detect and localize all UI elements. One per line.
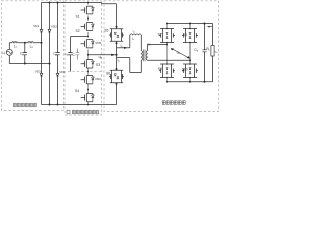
- svg-text:S1: S1: [76, 14, 80, 18]
- output node dots: [166, 23, 206, 83]
- svg-text:X1: X1: [147, 43, 151, 47]
- svg-text:ip: ip: [118, 58, 121, 63]
- wire: AC top wire: [9, 42, 41, 44]
- labels: [2, 14, 218, 93]
- chain node dots: [87, 18, 89, 91]
- svg-text:RL: RL: [206, 47, 210, 52]
- AC source U_i: [6, 49, 12, 55]
- svg-text:S7: S7: [158, 33, 162, 37]
- inductor L_f1: [12, 42, 18, 43]
- caption: HF converter: [162, 101, 185, 105]
- wire: S5 to link node: [116, 42, 118, 58]
- wire: bottom bus: [42, 104, 117, 106]
- svg-text:iLr: iLr: [133, 29, 136, 34]
- dashed divider segment: [68, 71, 104, 73]
- switch S2: [81, 23, 95, 37]
- switch cell 3 (VD5): [81, 40, 95, 55]
- inductor L_r: [129, 35, 131, 48]
- flying cap branch C_d2: [70, 37, 72, 72]
- bidirectional switch S10: [182, 64, 198, 78]
- transformer T1 primary: [141, 51, 142, 61]
- svg-text:VD3: VD3: [35, 69, 41, 73]
- inductor L_f2: [28, 42, 34, 43]
- wire: S6 branch: [116, 58, 118, 70]
- capacitor C_o: [204, 24, 206, 82]
- dashed box: five-level inverter section: [65, 1, 102, 115]
- rail 2: [49, 3, 51, 105]
- svg-text:S3: S3: [96, 63, 100, 67]
- caption: five-level inverter: [67, 110, 99, 114]
- svg-text:Ui: Ui: [2, 51, 5, 56]
- svg-text:uo: uo: [215, 50, 219, 55]
- transformer core: [143, 50, 145, 62]
- switch S1 (MOSFET+diode): [81, 3, 95, 22]
- dashed box: HF transformer converter section: [104, 1, 219, 112]
- rail 1: [41, 3, 43, 105]
- wire: link upper with arrow i_s: [117, 47, 130, 49]
- svg-text:VD5: VD5: [95, 41, 101, 45]
- svg-text:Ls: Ls: [30, 44, 34, 49]
- wire: AC bottom return: [9, 63, 49, 65]
- rail 3: [57, 3, 59, 105]
- wire: source top lead: [8, 43, 10, 50]
- diode VD4: [56, 73, 59, 76]
- svg-text:S2: S2: [76, 29, 80, 33]
- capacitor C_f branch: [24, 43, 26, 64]
- wire: node A to flying caps: [71, 36, 89, 38]
- diode VD1: [40, 29, 43, 32]
- wire: secondary top: [147, 45, 167, 51]
- capacitor C_r: [76, 49, 80, 60]
- transformer T1 secondary: [146, 51, 147, 61]
- bidirectional switch S9: [159, 64, 175, 78]
- svg-text:up: up: [99, 55, 103, 60]
- dashed box: input filter section: [2, 1, 219, 115]
- bidirectional switch S8: [182, 29, 198, 43]
- switch cell 4 (S3): [81, 55, 95, 72]
- svg-text:Lr: Lr: [132, 37, 135, 42]
- resistor R_L: [211, 46, 214, 57]
- wire: output bottom rail: [167, 56, 213, 82]
- link node dots: [115, 26, 117, 85]
- switch cell 5 (VD6): [81, 72, 95, 90]
- svg-text:S9: S9: [158, 67, 162, 71]
- svg-text:VD4: VD4: [59, 70, 65, 74]
- wire: node B output u_p: [88, 54, 117, 56]
- wire: A-C link vertical: [166, 24, 168, 82]
- svg-text:VD2: VD2: [51, 24, 57, 28]
- svg-text:S5: S5: [104, 29, 108, 33]
- svg-text:Co: Co: [194, 48, 198, 53]
- bidirectional switch S6: [109, 70, 124, 84]
- wire: secondary bottom: [147, 59, 190, 61]
- svg-text:S10: S10: [182, 67, 188, 71]
- node dots bus: [49, 2, 90, 106]
- svg-text:S6: S6: [106, 72, 110, 76]
- svg-text:Lf: Lf: [14, 44, 17, 49]
- svg-text:Cr: Cr: [72, 52, 75, 57]
- wire: source bottom lead: [8, 55, 10, 63]
- bidirectional switch S5: [109, 28, 124, 42]
- svg-text:S4: S4: [75, 89, 79, 93]
- diode VD3: [40, 73, 43, 76]
- wire: top DC bus: [42, 3, 117, 4]
- wire: link lower return: [117, 58, 142, 73]
- wire: HF link top feed: [116, 4, 118, 28]
- bidirectional switch S7: [159, 29, 175, 43]
- wire: B-D link vertical: [189, 24, 191, 82]
- annotation arrow u_s: [172, 49, 188, 58]
- arrow i_o: [209, 26, 212, 28]
- svg-text:VD6: VD6: [95, 77, 101, 81]
- svg-text:S8: S8: [183, 33, 187, 37]
- caption: input filter (CJK-like glyph blobs): [13, 101, 185, 114]
- svg-text:VD1: VD1: [33, 24, 39, 28]
- wire: output top rail: [167, 24, 213, 46]
- wire: S6 to bottom bus: [116, 84, 118, 105]
- capacitor C_d1: [55, 53, 59, 55]
- diode VD2: [48, 29, 51, 32]
- switch S4: [81, 90, 95, 105]
- node dots left: [24, 42, 51, 65]
